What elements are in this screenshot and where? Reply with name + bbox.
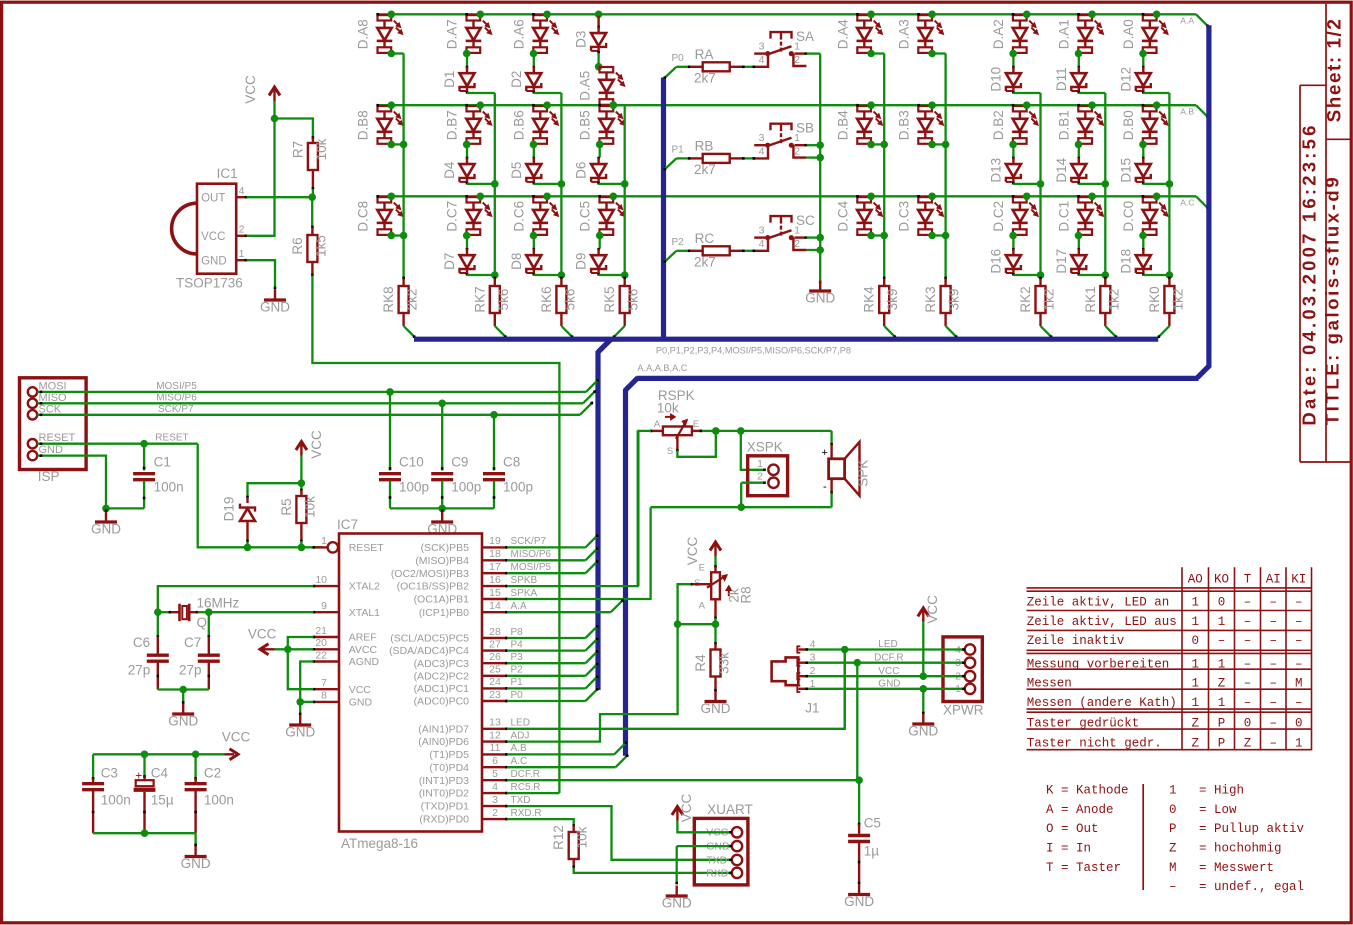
resistor R6: [311, 197, 313, 226]
svg-text:P3: P3: [511, 652, 524, 663]
IC7 pin 15 SPKA: [482, 598, 507, 600]
svg-text:(MISO)PB4: (MISO)PB4: [415, 555, 469, 567]
svg-text:D.C2: D.C2: [991, 201, 1006, 232]
svg-text:15µ: 15µ: [151, 793, 174, 808]
svg-text:AO: AO: [1188, 573, 1203, 587]
svg-text:D.A2: D.A2: [991, 19, 1006, 49]
wire net OUT: [247, 196, 313, 198]
wire: [1078, 236, 1080, 249]
svg-text:–: –: [1295, 634, 1303, 648]
bus diagonal to central: [598, 340, 611, 353]
svg-text:–: –: [1269, 676, 1277, 690]
svg-text:D14: D14: [1054, 157, 1069, 182]
svg-text:–: –: [1269, 717, 1277, 731]
svg-text:Messen: Messen: [1027, 676, 1072, 690]
ground caps rail: [194, 833, 196, 845]
svg-text:C9: C9: [451, 455, 468, 470]
svg-text:2: 2: [794, 146, 800, 158]
switch SC pin1 terminal: [795, 236, 807, 238]
svg-text:(OC1A)PB1: (OC1A)PB1: [414, 594, 470, 606]
svg-text:RESET: RESET: [155, 433, 188, 444]
svg-text:GND: GND: [701, 701, 731, 716]
ground crystal: [182, 690, 184, 704]
svg-text:A.C: A.C: [511, 756, 528, 767]
svg-text:1k2: 1k2: [1170, 289, 1185, 311]
svg-text:P2: P2: [511, 665, 524, 676]
wire: [1078, 54, 1080, 67]
svg-text:D.C5: D.C5: [578, 201, 593, 232]
svg-text:(ADC0)PC0: (ADC0)PC0: [414, 696, 470, 708]
svg-text:RXD: RXD: [706, 867, 729, 879]
wire: [1143, 274, 1169, 276]
svg-text:100p: 100p: [399, 480, 429, 495]
svg-text:MOSI/P5: MOSI/P5: [511, 562, 552, 573]
svg-text:D.A7: D.A7: [445, 19, 460, 49]
svg-text:–: –: [1244, 595, 1252, 609]
wire net P3 tap: [507, 662, 586, 664]
svg-text:D3: D3: [574, 31, 589, 48]
resistor RK7: [494, 277, 497, 280]
LED D.B1: [1078, 106, 1092, 111]
svg-text:D.B5: D.B5: [578, 110, 593, 140]
svg-text:Taster nicht gedr.: Taster nicht gedr.: [1027, 737, 1162, 751]
IC7 pin 26 P3: [482, 662, 507, 664]
wire bus entry: [404, 326, 416, 338]
svg-text:D.B8: D.B8: [356, 110, 371, 140]
power VCC R5: [300, 444, 302, 456]
connector XUART pin VCC: [732, 827, 742, 837]
wire: [1143, 92, 1169, 94]
LED D.A1: [1078, 15, 1092, 20]
svg-text:KI: KI: [1291, 573, 1306, 587]
connector XPWR pin 4: [965, 644, 975, 654]
IC IC1 TSOP1736 box: [197, 184, 236, 274]
wire AVCC to VCC pin: [288, 649, 314, 689]
LED D.C3: [918, 197, 932, 202]
wire net RESET: [37, 443, 198, 445]
bus horizontal A-bus: [637, 376, 1199, 381]
svg-text:–: –: [1269, 657, 1277, 671]
wire AGND: [300, 662, 313, 702]
switch SB contact bar pin3: [754, 144, 769, 146]
svg-text:–: –: [1295, 615, 1303, 629]
svg-text:E: E: [699, 563, 705, 574]
wire net GND row: [808, 688, 965, 690]
wire net SCK/P7 tap: [507, 546, 586, 548]
svg-text:–: –: [1244, 615, 1252, 629]
svg-text:D.A4: D.A4: [835, 19, 850, 50]
svg-text:1: 1: [1295, 737, 1303, 751]
switch SB pin4 terminal: [753, 145, 768, 158]
svg-text:P8: P8: [511, 627, 524, 638]
svg-text:XUART: XUART: [707, 802, 753, 817]
IC7 pin 1 RESET: [328, 542, 338, 552]
svg-text:10k: 10k: [575, 826, 590, 848]
svg-text:GND: GND: [878, 678, 900, 689]
svg-text:GND: GND: [168, 714, 198, 729]
svg-text:RC: RC: [695, 231, 715, 246]
svg-text:3: 3: [759, 225, 765, 237]
wire ticks TXD RXD: [729, 859, 732, 862]
ground XPWR: [922, 714, 924, 724]
wire RSPK S wiper: [676, 435, 678, 450]
wire net RC5.R: [507, 792, 559, 794]
IC1 pin OUT: [236, 196, 246, 198]
svg-text:4: 4: [759, 146, 765, 158]
svg-text:D12: D12: [1118, 67, 1133, 92]
wire GND pin: [300, 701, 313, 703]
svg-text:D7: D7: [442, 253, 457, 270]
svg-text:D.B7: D.B7: [445, 110, 460, 140]
svg-text:A.A,A.B,A.C: A.A,A.B,A.C: [637, 363, 687, 373]
svg-text:-: -: [823, 481, 827, 493]
connector XUART pin TXD: [732, 855, 742, 865]
svg-text:A.B: A.B: [1180, 106, 1194, 116]
connector XUART pin RXD: [732, 868, 742, 878]
svg-text:VCC: VCC: [309, 430, 324, 459]
wire: [1012, 144, 1014, 157]
svg-text:21: 21: [315, 625, 327, 637]
power VCC IC1: [273, 90, 275, 102]
resistor RK5: [623, 277, 626, 280]
wire VCC to junction: [273, 101, 275, 119]
IC7 pin 2 RXD.R: [482, 818, 507, 820]
IC7 pin 19 SCK/P7: [482, 546, 507, 548]
svg-text:AREF: AREF: [349, 632, 377, 644]
wire: [534, 274, 562, 276]
IC7 pin 28 P8: [482, 637, 507, 639]
capacitor C2: [194, 754, 196, 780]
svg-text:D6: D6: [574, 162, 589, 179]
wire: [1012, 54, 1014, 67]
power VCC AVCC arrow left: [262, 648, 275, 650]
svg-text:27p: 27p: [179, 663, 202, 678]
svg-text:14: 14: [489, 600, 501, 612]
svg-text:A: A: [654, 419, 661, 430]
svg-text:D.C3: D.C3: [896, 201, 911, 232]
IC7 pin 6 A.C: [482, 766, 507, 768]
svg-text:T: T: [1244, 573, 1252, 587]
switch SC actuator: [771, 216, 792, 223]
svg-text:27: 27: [489, 638, 501, 650]
connector J1 jack body: [772, 657, 799, 685]
svg-text:24: 24: [489, 676, 501, 688]
wire: [597, 53, 599, 67]
IC7 pin 20 AVCC: [314, 648, 340, 650]
connector XUART box: [694, 818, 748, 885]
IC7 pin 12 ADJ: [482, 740, 507, 742]
switch SC contacts: [765, 235, 770, 240]
svg-text:D.C0: D.C0: [1121, 201, 1136, 232]
wire: [714, 556, 716, 566]
wire XTAL1: [209, 611, 314, 613]
svg-text:VCC: VCC: [248, 627, 277, 642]
ground XUART: [676, 886, 678, 896]
svg-text:VCC: VCC: [679, 794, 694, 823]
wire bus entry: [1105, 326, 1117, 338]
wire: [467, 274, 495, 276]
svg-text:TITLE: galois-sflux-d9: TITLE: galois-sflux-d9: [1322, 175, 1343, 425]
svg-text:16MHz: 16MHz: [197, 596, 240, 611]
wire: [534, 183, 562, 185]
svg-text:Z: Z: [1191, 737, 1199, 751]
wire bus entry: [495, 326, 507, 338]
svg-text:D.C6: D.C6: [511, 201, 526, 232]
svg-text:RESET: RESET: [349, 542, 385, 554]
svg-text:1: 1: [757, 458, 763, 470]
svg-text:D1: D1: [442, 71, 457, 88]
diode D4: [466, 157, 469, 160]
wire row net A.B: [378, 104, 1196, 106]
wire column line: [402, 54, 404, 279]
svg-text:0: 0: [1191, 634, 1199, 648]
svg-text:ISP: ISP: [38, 469, 60, 484]
wire bus entry: [561, 326, 573, 338]
svg-text:VCC: VCC: [222, 730, 251, 745]
wire: [1142, 236, 1144, 249]
resistor RB: [703, 154, 730, 163]
wire net MOSI/P5: [37, 391, 586, 393]
diode D15: [1142, 157, 1145, 160]
IC7 pin 22 AGND: [314, 660, 340, 662]
svg-text:–: –: [1244, 696, 1252, 710]
svg-text:(TXD)PD1: (TXD)PD1: [421, 801, 470, 813]
wire caps gnd rail: [390, 507, 494, 509]
IC7 pin 5 DCF.R: [482, 779, 507, 781]
wire VCC rail to R7: [275, 119, 313, 137]
capacitor C1: [143, 444, 145, 471]
wire: [467, 183, 495, 185]
wire: [1079, 274, 1106, 276]
svg-text:D9: D9: [574, 253, 589, 270]
svg-text:R8: R8: [739, 586, 754, 603]
svg-text:C10: C10: [399, 455, 424, 470]
wire: [599, 144, 601, 157]
svg-text:–: –: [1295, 696, 1303, 710]
connector ISP pin MOSI: [28, 387, 37, 396]
IC7 pin 4 RC5.R: [482, 792, 507, 794]
svg-text:1: 1: [321, 535, 327, 547]
connector XUART pin GND: [732, 841, 742, 851]
wire: [391, 143, 403, 145]
svg-text:1 = High: 1 = High: [1169, 784, 1244, 798]
svg-text:0: 0: [1295, 717, 1303, 731]
svg-text:33k: 33k: [717, 652, 732, 674]
svg-text:C3: C3: [101, 766, 118, 781]
wire bus entry P0: [664, 67, 677, 79]
svg-text:P0: P0: [672, 53, 685, 64]
svg-text:P1: P1: [672, 144, 685, 155]
svg-text:2: 2: [239, 224, 245, 236]
wire: [466, 54, 468, 67]
wire SPKA rail: [651, 506, 832, 508]
svg-text:+: +: [822, 447, 828, 459]
connector XPWR pin 2: [965, 671, 975, 681]
svg-text:2k2: 2k2: [405, 289, 420, 311]
svg-text:D10: D10: [988, 67, 1003, 92]
wire: [533, 54, 535, 67]
svg-text:LED: LED: [511, 718, 530, 729]
svg-text:+: +: [135, 769, 142, 783]
svg-text:20: 20: [315, 637, 327, 649]
wire net P2 tap: [507, 675, 586, 677]
connector J1 pin 2: [798, 675, 806, 677]
wire column line: [494, 93, 496, 279]
svg-text:D13: D13: [988, 158, 1003, 183]
LED D.A3: [918, 15, 932, 20]
svg-text:SB: SB: [796, 121, 814, 136]
svg-text:–: –: [1244, 634, 1252, 648]
svg-text:RK1: RK1: [1083, 286, 1098, 312]
switch SB contacts: [765, 143, 770, 148]
IC7 pin 10 XTAL2: [314, 585, 340, 587]
svg-text:(OC2/MOSI)PB3: (OC2/MOSI)PB3: [391, 568, 469, 580]
wire bus entry: [613, 326, 625, 338]
wire bus entry P2: [664, 251, 677, 263]
svg-text:MISO/P6: MISO/P6: [511, 549, 552, 560]
connector XSPK box: [748, 456, 788, 496]
svg-text:R5: R5: [279, 498, 294, 515]
svg-text:D.C8: D.C8: [356, 201, 371, 232]
wire column line: [1168, 93, 1170, 279]
wire net RXD: [574, 868, 732, 873]
svg-text:RK4: RK4: [862, 286, 877, 313]
svg-text:DCF.R: DCF.R: [874, 652, 903, 663]
wire: [1012, 236, 1014, 249]
svg-text:Messen (andere Kath): Messen (andere Kath): [1027, 696, 1177, 710]
resistor R4: [714, 624, 716, 643]
ground switches: [819, 281, 822, 284]
svg-text:C1: C1: [154, 455, 171, 470]
resistor RK0: [1168, 277, 1171, 280]
svg-text:(T1)PD5: (T1)PD5: [429, 749, 469, 761]
wire column line: [1104, 93, 1106, 279]
svg-text:E: E: [693, 419, 699, 430]
wire VCC rail: [93, 753, 224, 755]
wire bus entry: [884, 326, 896, 338]
svg-text:A: A: [699, 601, 706, 612]
switch SC lever: [768, 230, 792, 238]
svg-text:D.A8: D.A8: [356, 19, 371, 49]
svg-text:SPK: SPK: [856, 460, 871, 487]
bus horizontal P0-P8: [414, 337, 1158, 342]
resistor RC: [703, 246, 730, 255]
svg-text:17: 17: [489, 561, 501, 573]
switch SB pin2 terminal: [793, 145, 806, 157]
svg-text:SPKA: SPKA: [511, 588, 538, 599]
svg-text:KO: KO: [1214, 573, 1229, 587]
connector J1 pin 4: [798, 648, 806, 650]
svg-text:P2: P2: [672, 237, 685, 248]
wire bus entry: [1158, 326, 1170, 338]
diode D7: [466, 248, 469, 251]
svg-text:3: 3: [492, 794, 498, 806]
svg-text:GND: GND: [349, 697, 373, 709]
wire net A.A tap: [507, 611, 611, 613]
svg-text:4: 4: [492, 781, 498, 793]
legend divider: [1142, 784, 1144, 890]
wire: [391, 234, 403, 236]
svg-text:12: 12: [489, 729, 501, 741]
svg-text:ATmega8-16: ATmega8-16: [341, 836, 418, 851]
diode D12: [1142, 66, 1145, 69]
switch SC contact bar pin3: [754, 236, 769, 238]
svg-text:(RXD)PD0: (RXD)PD0: [419, 814, 469, 826]
svg-text:IC7: IC7: [337, 517, 358, 532]
svg-text:P = Pullup aktiv: P = Pullup aktiv: [1169, 822, 1305, 836]
diode D6: [597, 157, 600, 160]
LED D.A7: [467, 15, 481, 20]
wire: [466, 144, 468, 157]
svg-text:3: 3: [759, 132, 765, 144]
svg-text:D11: D11: [1054, 67, 1069, 91]
svg-text:2: 2: [794, 54, 800, 66]
svg-text:A.A: A.A: [511, 601, 527, 612]
svg-text:D17: D17: [1054, 249, 1069, 274]
ground IC7: [299, 702, 301, 715]
svg-text:3k9: 3k9: [947, 289, 962, 311]
wire net SPKA: [507, 507, 651, 599]
svg-text:VCC: VCC: [925, 595, 940, 624]
wire gnd rail caps: [93, 832, 196, 834]
svg-text:T = Taster: T = Taster: [1046, 861, 1121, 875]
svg-text:P: P: [1218, 717, 1226, 731]
wire net MOSI/P5 tap: [507, 572, 586, 574]
svg-text:(SCL/ADC5)PC5: (SCL/ADC5)PC5: [390, 633, 469, 645]
svg-text:10: 10: [315, 574, 327, 586]
svg-text:–: –: [1269, 595, 1277, 609]
svg-text:100n: 100n: [101, 793, 131, 808]
svg-text:7: 7: [321, 677, 327, 689]
wire: [599, 236, 601, 249]
wire bus entry A.A: [1196, 14, 1209, 27]
svg-text:D.B6: D.B6: [511, 110, 526, 140]
switch SB lever: [768, 138, 792, 146]
svg-text:D16: D16: [988, 249, 1003, 274]
svg-text:RC5.R: RC5.R: [511, 782, 541, 793]
LED D.A5: [600, 67, 614, 72]
diode D16: [1012, 248, 1015, 251]
ground IC1: [274, 290, 276, 300]
svg-text:GND: GND: [908, 724, 938, 739]
svg-text:K = Kathode: K = Kathode: [1046, 784, 1129, 798]
svg-text:0: 0: [1244, 717, 1252, 731]
svg-text:OUT: OUT: [201, 193, 225, 205]
switch SC pin2 terminal: [793, 238, 806, 250]
svg-text:–: –: [1269, 634, 1277, 648]
wire net LED: [507, 650, 845, 729]
svg-text:1: 1: [1218, 696, 1226, 710]
svg-text:D19: D19: [222, 497, 237, 522]
switch SA contact bar pin3: [754, 52, 769, 54]
diode D2: [533, 66, 536, 69]
svg-text:XTAL2: XTAL2: [349, 581, 380, 593]
svg-text:10k: 10k: [302, 496, 317, 518]
wire bus entry: [1041, 326, 1053, 338]
IC7 pin 3 TXD: [482, 805, 507, 807]
diode D1: [466, 66, 469, 69]
wire net P8 tap: [507, 637, 586, 639]
power VCC rail arrow right: [225, 753, 235, 755]
LED D.A2: [1013, 15, 1027, 20]
wire: [1013, 92, 1040, 94]
connector XSPK pin 2: [768, 478, 778, 488]
svg-text:RESET: RESET: [39, 432, 76, 444]
LED D.B6: [533, 106, 547, 111]
switch SA contacts: [765, 51, 770, 56]
svg-text:GND: GND: [181, 856, 211, 871]
svg-text:5k6: 5k6: [496, 289, 511, 311]
